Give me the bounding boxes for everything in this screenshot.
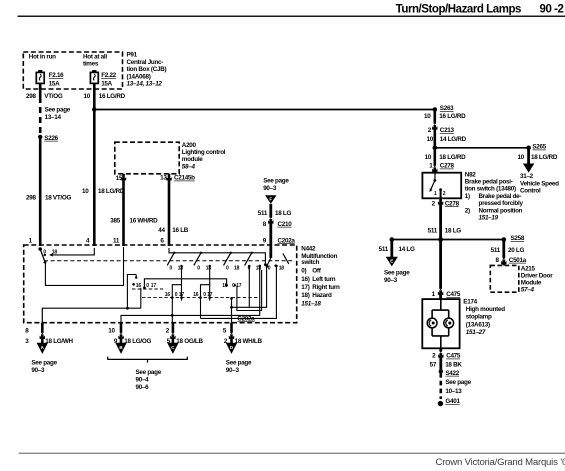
svg-text:0: 0 — [197, 265, 200, 271]
wire W1 dashed off-page segment — [39, 97, 42, 135]
contact group A labels 16 0 17 — [132, 283, 135, 286]
bus LD — [201, 266, 277, 318]
svg-text:511: 511 — [491, 247, 501, 254]
svg-text:58–4: 58–4 — [182, 163, 196, 170]
svg-text:times: times — [83, 61, 99, 68]
svg-text:17: 17 — [151, 283, 157, 289]
svg-text:18): 18) — [301, 292, 309, 299]
splice S226 — [38, 135, 42, 139]
svg-text:E: E — [390, 258, 393, 263]
svg-text:C202a: C202a — [278, 237, 296, 244]
svg-text:385: 385 — [110, 217, 120, 224]
svg-text:tion Box (CJB): tion Box (CJB) — [127, 66, 167, 73]
wire from pin 4 to position-18 arrow — [52, 248, 95, 255]
mechanical linkage 2b (dashed) — [142, 297, 258, 299]
wire drop D output — [230, 297, 233, 300]
svg-text:31–2: 31–2 — [520, 173, 534, 180]
fuse F2.16 15A — [36, 70, 64, 87]
svg-text:0: 0 — [203, 292, 206, 298]
svg-text:High mounted: High mounted — [466, 306, 505, 313]
svg-text:57–4: 57–4 — [521, 287, 535, 294]
svg-text:Hot at all: Hot at all — [83, 53, 107, 60]
connector C501a — [501, 258, 506, 264]
svg-text:14 LG: 14 LG — [399, 246, 415, 253]
svg-text:17): 17) — [301, 284, 309, 291]
svg-text:10: 10 — [84, 93, 91, 100]
svg-text:18 VT/OG: 18 VT/OG — [45, 194, 71, 201]
svg-text:See page: See page — [384, 270, 410, 277]
loop leg stubs — [181, 298, 183, 301]
junction node on W4 — [438, 237, 443, 242]
wire W4 18 LG brake feed down — [439, 198, 442, 299]
svg-text:Hazard: Hazard — [312, 292, 332, 299]
svg-text:18: 18 — [279, 265, 285, 271]
svg-text:Left turn: Left turn — [312, 276, 335, 283]
svg-text:16 LG/RD: 16 LG/RD — [439, 113, 466, 120]
svg-text:tion switch (13480): tion switch (13480) — [465, 186, 516, 193]
wire W5 WH/RD from A200 pin 15 to N442 pin 11 — [122, 174, 125, 246]
wire W3 LG/RD down right side — [433, 110, 436, 173]
svg-text:C202a: C202a — [237, 315, 255, 322]
bus LB to output B — [121, 266, 260, 323]
svg-text:151–27: 151–27 — [466, 329, 486, 336]
wire drop d2 — [140, 288, 142, 308]
wire W6 16 LB from A200 pin 13 to N442 pin 6 — [168, 174, 171, 246]
output wire A 18 LG/WH — [41, 323, 44, 343]
bus LE — [237, 270, 262, 311]
svg-text:18 LG: 18 LG — [445, 228, 461, 235]
svg-text:13–14: 13–14 — [45, 114, 62, 121]
svg-text:298: 298 — [26, 194, 36, 201]
svg-text:S226: S226 — [44, 135, 58, 142]
svg-text:0: 0 — [170, 265, 173, 271]
svg-text:C475: C475 — [446, 353, 461, 360]
wire branch to S263 (horizontal) — [94, 109, 435, 111]
turn contact loop top — [144, 279, 226, 288]
blade b4 — [251, 252, 253, 254]
output wire D 18 WH/LB — [230, 323, 233, 343]
svg-text:18 LG/RD: 18 LG/RD — [98, 188, 125, 195]
svg-text:Turn/Stop/Hazard Lamps: Turn/Stop/Hazard Lamps — [396, 4, 521, 16]
svg-text:90–3: 90–3 — [31, 367, 45, 374]
mechanical linkage 2a (dashed) — [132, 288, 163, 290]
svg-text:Control: Control — [520, 188, 541, 195]
svg-text:511: 511 — [428, 228, 438, 235]
wire drop d5 — [248, 265, 250, 267]
wire to E arrow — [390, 240, 393, 258]
svg-text:18 OG/LB: 18 OG/LB — [176, 338, 203, 345]
junction to S265 branch — [433, 146, 438, 151]
fuse F2.22 15A — [90, 70, 116, 87]
off-page arrow D — [226, 343, 237, 354]
svg-text:18 LG/WH: 18 LG/WH — [45, 338, 73, 345]
svg-text:S263: S263 — [440, 105, 454, 112]
splice S265 — [526, 146, 531, 151]
footer rule — [19, 452, 565, 454]
svg-text:0: 0 — [226, 265, 229, 271]
wire to vehicle speed control (arrow) — [527, 148, 530, 164]
svg-text:2): 2) — [465, 207, 470, 214]
svg-text:C210: C210 — [278, 221, 293, 228]
svg-text:10: 10 — [425, 154, 432, 161]
svg-text:C501a: C501a — [509, 257, 527, 264]
blade b2 — [200, 252, 202, 254]
svg-text:Crown Victoria/Grand Marquis ’: Crown Victoria/Grand Marquis ’0 — [436, 457, 565, 468]
svg-text:See page: See page — [45, 107, 71, 114]
wire W1 lower segment to N442 pin 1 — [39, 138, 42, 246]
svg-text:1: 1 — [434, 191, 437, 197]
dashed off-page ground wire — [439, 373, 442, 399]
blade b5 — [283, 253, 289, 264]
svg-text:switch: switch — [301, 259, 319, 266]
svg-text:N82: N82 — [465, 171, 476, 178]
svg-text:module: module — [182, 156, 203, 163]
svg-text:511: 511 — [258, 210, 268, 217]
wire W2 LG/RD from fuse F2.22 down to N442 pin 4 — [93, 83, 96, 246]
bus LC — [232, 267, 267, 308]
bracket grouping B and C — [108, 357, 188, 363]
svg-text:F: F — [269, 197, 272, 202]
svg-text:13–14, 13–12: 13–14, 13–12 — [127, 81, 163, 88]
loop B (16-17 bridge) — [172, 285, 181, 298]
svg-text:16 LG/RD: 16 LG/RD — [99, 93, 126, 100]
N442 Multifunction switch (dashed box) — [24, 245, 297, 323]
brake pedal position switch N82 box — [422, 173, 461, 199]
N82 switch contact stub — [434, 173, 436, 181]
connector C210 — [268, 217, 273, 223]
svg-text:90–6: 90–6 — [136, 384, 150, 391]
N442 label text — [301, 246, 340, 308]
svg-text:15A: 15A — [101, 80, 112, 87]
wire drop d4 — [200, 298, 202, 319]
svg-text:A200: A200 — [182, 142, 197, 149]
svg-text:Hot in run: Hot in run — [29, 53, 56, 60]
svg-text:11: 11 — [113, 238, 120, 245]
svg-text:See page: See page — [445, 379, 471, 386]
svg-text:C278: C278 — [440, 163, 455, 170]
svg-text:C475: C475 — [446, 291, 461, 298]
svg-text:298: 298 — [26, 93, 36, 100]
N82 label text — [465, 171, 524, 221]
off-page arrow A — [37, 343, 48, 354]
switch blade at pin 1 — [40, 249, 45, 262]
svg-text:See page: See page — [226, 359, 252, 366]
header rule — [18, 15, 565, 17]
off-page arrow B — [115, 343, 126, 354]
svg-text:Off: Off — [312, 268, 321, 275]
svg-text:Right turn: Right turn — [312, 284, 340, 291]
bus LA to output A — [42, 308, 141, 323]
svg-text:F2.16: F2.16 — [49, 72, 64, 79]
wire branch to S265 — [435, 147, 529, 149]
svg-text:E174: E174 — [463, 298, 477, 305]
svg-text:2: 2 — [443, 191, 446, 197]
svg-text:0: 0 — [146, 283, 149, 289]
svg-text:151–19: 151–19 — [479, 215, 499, 222]
hazard bus from pin 6 — [169, 248, 265, 264]
svg-text:N442: N442 — [301, 246, 316, 253]
off-page arrow E — [386, 257, 398, 267]
svg-text:18: 18 — [234, 265, 240, 271]
svg-text:16 LB: 16 LB — [172, 227, 188, 234]
svg-text:20 LG: 20 LG — [508, 247, 524, 254]
svg-text:F2.22: F2.22 — [101, 72, 116, 79]
contact labels row 1 — [170, 265, 285, 272]
svg-text:18 WH/LB: 18 WH/LB — [235, 338, 263, 345]
svg-text:Brake pedal posi-: Brake pedal posi- — [465, 179, 513, 186]
svg-text:10: 10 — [82, 188, 89, 195]
svg-text:16: 16 — [165, 292, 171, 298]
svg-text:18 LG: 18 LG — [275, 210, 291, 217]
wire stub 18-contact to loop B — [180, 265, 182, 267]
svg-text:pressed forcibly: pressed forcibly — [479, 200, 524, 207]
wire W7 18 LG from F to N442 pin 9 — [269, 204, 272, 246]
svg-text:10: 10 — [427, 136, 434, 143]
loop C (16-17 bridge) — [201, 285, 210, 298]
wire below E174 — [439, 348, 442, 371]
svg-text:16): 16) — [301, 276, 309, 283]
svg-text:10: 10 — [424, 113, 431, 120]
svg-text:90–3: 90–3 — [226, 367, 240, 374]
svg-text:18 BK: 18 BK — [445, 362, 462, 369]
blade b1 — [173, 252, 175, 254]
svg-text:18 LG/RD: 18 LG/RD — [531, 154, 558, 161]
E174 internal wiring — [440, 299, 442, 310]
wire W1 VT/OG from fuse F2.16 down — [39, 83, 42, 97]
svg-text:18 LG/OG: 18 LG/OG — [124, 338, 151, 345]
off-page arrow C — [167, 343, 178, 354]
svg-text:17: 17 — [207, 292, 213, 298]
blade b3 — [230, 252, 232, 254]
splice S263 — [433, 107, 438, 112]
svg-text:S422: S422 — [445, 370, 459, 377]
svg-text:See page: See page — [263, 178, 289, 185]
wire stub 18-contact to loop C — [209, 265, 211, 267]
mechanical linkage (dashed) — [44, 260, 293, 262]
svg-text:Normal position: Normal position — [479, 207, 523, 214]
svg-text:90 -2: 90 -2 — [540, 4, 564, 16]
output wire B 18 LG/OG — [120, 323, 123, 343]
connector C213 — [432, 123, 437, 129]
svg-text:10–13: 10–13 — [445, 388, 462, 395]
horizontal wire junction-E-S258 — [392, 239, 504, 241]
svg-text:See page: See page — [136, 369, 162, 376]
svg-text:S265: S265 — [532, 144, 546, 151]
svg-text:C213: C213 — [440, 127, 455, 134]
svg-text:Central Junc-: Central Junc- — [127, 59, 164, 66]
svg-text:G401: G401 — [445, 398, 460, 405]
node pin1 junction — [38, 247, 42, 251]
svg-text:(14A068): (14A068) — [127, 73, 151, 80]
svg-text:16 WH/RD: 16 WH/RD — [130, 217, 159, 224]
pin 9 contact kink — [269, 246, 272, 258]
svg-text:14 LG/RD: 14 LG/RD — [440, 136, 467, 143]
wire to A215 — [502, 240, 505, 266]
N82 switch blade — [431, 180, 435, 189]
svg-text:44: 44 — [158, 227, 165, 234]
splice S422 — [439, 369, 443, 373]
A200 Lighting control module (dashed box) — [115, 142, 179, 174]
svg-text:15A: 15A — [49, 80, 60, 87]
svg-text:P91: P91 — [127, 52, 138, 59]
wire drop d3 to output C — [171, 298, 173, 323]
svg-text:17: 17 — [179, 292, 185, 298]
N82 pin 2 stub — [439, 188, 442, 191]
svg-text:Brake pedal de-: Brake pedal de- — [479, 193, 522, 200]
lamp 1 — [427, 318, 437, 328]
svg-text:13: 13 — [160, 175, 167, 182]
svg-text:Driver Door: Driver Door — [521, 273, 553, 280]
svg-text:S258: S258 — [511, 235, 525, 242]
A215 Driver Door Module (dashed box) — [490, 265, 519, 292]
svg-text:Vehicle Speed: Vehicle Speed — [520, 180, 559, 187]
svg-text:16: 16 — [222, 283, 228, 289]
svg-text:(13A613): (13A613) — [466, 321, 490, 328]
svg-text:57: 57 — [430, 362, 437, 369]
wire blade1 drop and link to pin 11 — [45, 247, 123, 285]
svg-text:16: 16 — [193, 292, 199, 298]
svg-text:10: 10 — [108, 328, 115, 335]
svg-text:See page: See page — [31, 359, 57, 366]
svg-text:C2145b: C2145b — [174, 175, 195, 182]
connector C278 below N82 — [438, 198, 443, 204]
svg-text:18 LG/RD: 18 LG/RD — [439, 154, 466, 161]
connector C475 pin 1 — [438, 289, 443, 295]
output wire C 18 OG/LB — [172, 323, 175, 343]
svg-text:10: 10 — [518, 154, 525, 161]
svg-text:90–3: 90–3 — [384, 277, 398, 284]
svg-text:Lighting control: Lighting control — [182, 149, 226, 156]
svg-text:A215: A215 — [521, 266, 536, 273]
svg-text:1): 1) — [465, 193, 470, 200]
svg-text:Module: Module — [521, 280, 542, 287]
svg-text:0): 0) — [301, 268, 306, 275]
wire drop d1 — [127, 275, 136, 309]
lamp 2 — [444, 318, 454, 328]
P91 label text — [127, 52, 167, 88]
svg-text:511: 511 — [379, 246, 389, 253]
svg-text:0: 0 — [175, 292, 178, 298]
svg-text:C278: C278 — [445, 200, 460, 207]
svg-text:151–18: 151–18 — [301, 301, 321, 308]
svg-text:VT/OG: VT/OG — [44, 93, 63, 100]
svg-text:stoplamp: stoplamp — [466, 314, 492, 321]
connector C475 pin 2 — [438, 351, 443, 357]
E174 High mounted stoplamp box — [422, 299, 459, 348]
junction on W2 — [92, 107, 97, 112]
E174 label text — [463, 298, 505, 336]
P91 Central Junction Box (dashed box) — [23, 52, 122, 89]
svg-text:90–4: 90–4 — [136, 376, 150, 383]
svg-text:90–3: 90–3 — [263, 185, 277, 192]
